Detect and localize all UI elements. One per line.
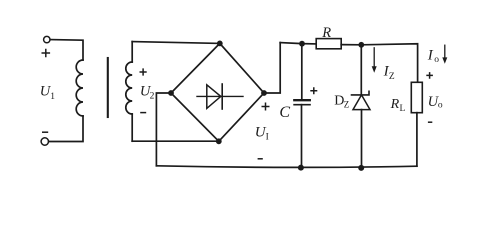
node: bridge top [217,41,223,47]
node: DZ bottom junction [358,165,364,171]
arrowhead Io [442,57,447,63]
node: bridge left [168,90,174,96]
polarity - (U1 primary) [42,131,48,133]
zener DZ top stub [360,45,362,95]
wire: primary top [50,40,83,60]
bridge diode symbol: axis line [197,95,243,97]
node: bridge bottom [216,138,222,144]
polarity - (UI bridge output) [258,158,263,160]
polarity + (C capacitor) [310,87,317,94]
wire: secondary top stub [131,42,133,62]
node: C bottom junction [298,165,304,171]
wire: secondary top to bridge top node [132,42,220,44]
svg-text:L: L [400,104,406,114]
svg-text:1: 1 [50,92,55,102]
svg-text:I: I [266,133,269,143]
svg-text:I: I [427,48,434,64]
wire: bottom rail [156,166,417,168]
bridge diode symbol: cathode bar [221,84,223,109]
wire: primary bottom [49,116,83,142]
wire: bridge plus (right node) riser [264,43,280,93]
polarity + (U1 primary) [42,49,51,58]
node: C top junction [299,41,305,47]
zener DZ cathode bar [352,91,370,95]
current arrow Io [444,45,446,59]
transformer primary winding [76,60,83,116]
wire: secondary bottom to bridge bottom node [132,140,219,142]
wire: secondary bottom stub [131,114,133,141]
bridge rectifier diamond [171,43,264,141]
resistor R body [316,39,341,49]
svg-text:2: 2 [150,92,155,102]
wire: resistor R to RL corner [341,44,417,83]
wire: RL bottom to rail [416,113,418,167]
current arrow IZ [373,48,375,68]
AC input terminal top [44,36,50,42]
polarity + (U2 secondary) [140,68,147,75]
svg-text:C: C [279,104,290,121]
polarity + (UI bridge output) [262,103,270,111]
capacitor C plates [294,99,310,101]
polarity - (Uo output) [428,121,432,123]
svg-text:o: o [434,55,439,65]
bridge diode symbol: triangle [207,85,221,109]
node: bridge right [261,90,267,96]
load RL body [411,82,422,112]
node: DZ top junction [358,42,364,48]
svg-text:Z: Z [344,100,350,110]
transformer secondary winding [126,62,132,114]
zener DZ triangle [353,95,370,110]
wire: bridge minus (left node) to bottom rail [156,93,171,166]
svg-text:R: R [390,97,400,112]
svg-text:Z: Z [389,72,395,82]
capacitor C bottom stub [301,105,303,168]
zener DZ bottom stub [361,110,363,168]
arrowhead IZ [372,66,377,73]
wire: top rail to resistor R [280,43,316,44]
capacitor C top stub [301,44,303,99]
svg-text:R: R [321,25,331,41]
transformer core [107,58,109,117]
polarity + (Uo output) [426,72,433,79]
polarity - (U2 secondary) [140,112,146,114]
AC input terminal bottom [41,138,48,145]
svg-text:o: o [438,101,443,111]
